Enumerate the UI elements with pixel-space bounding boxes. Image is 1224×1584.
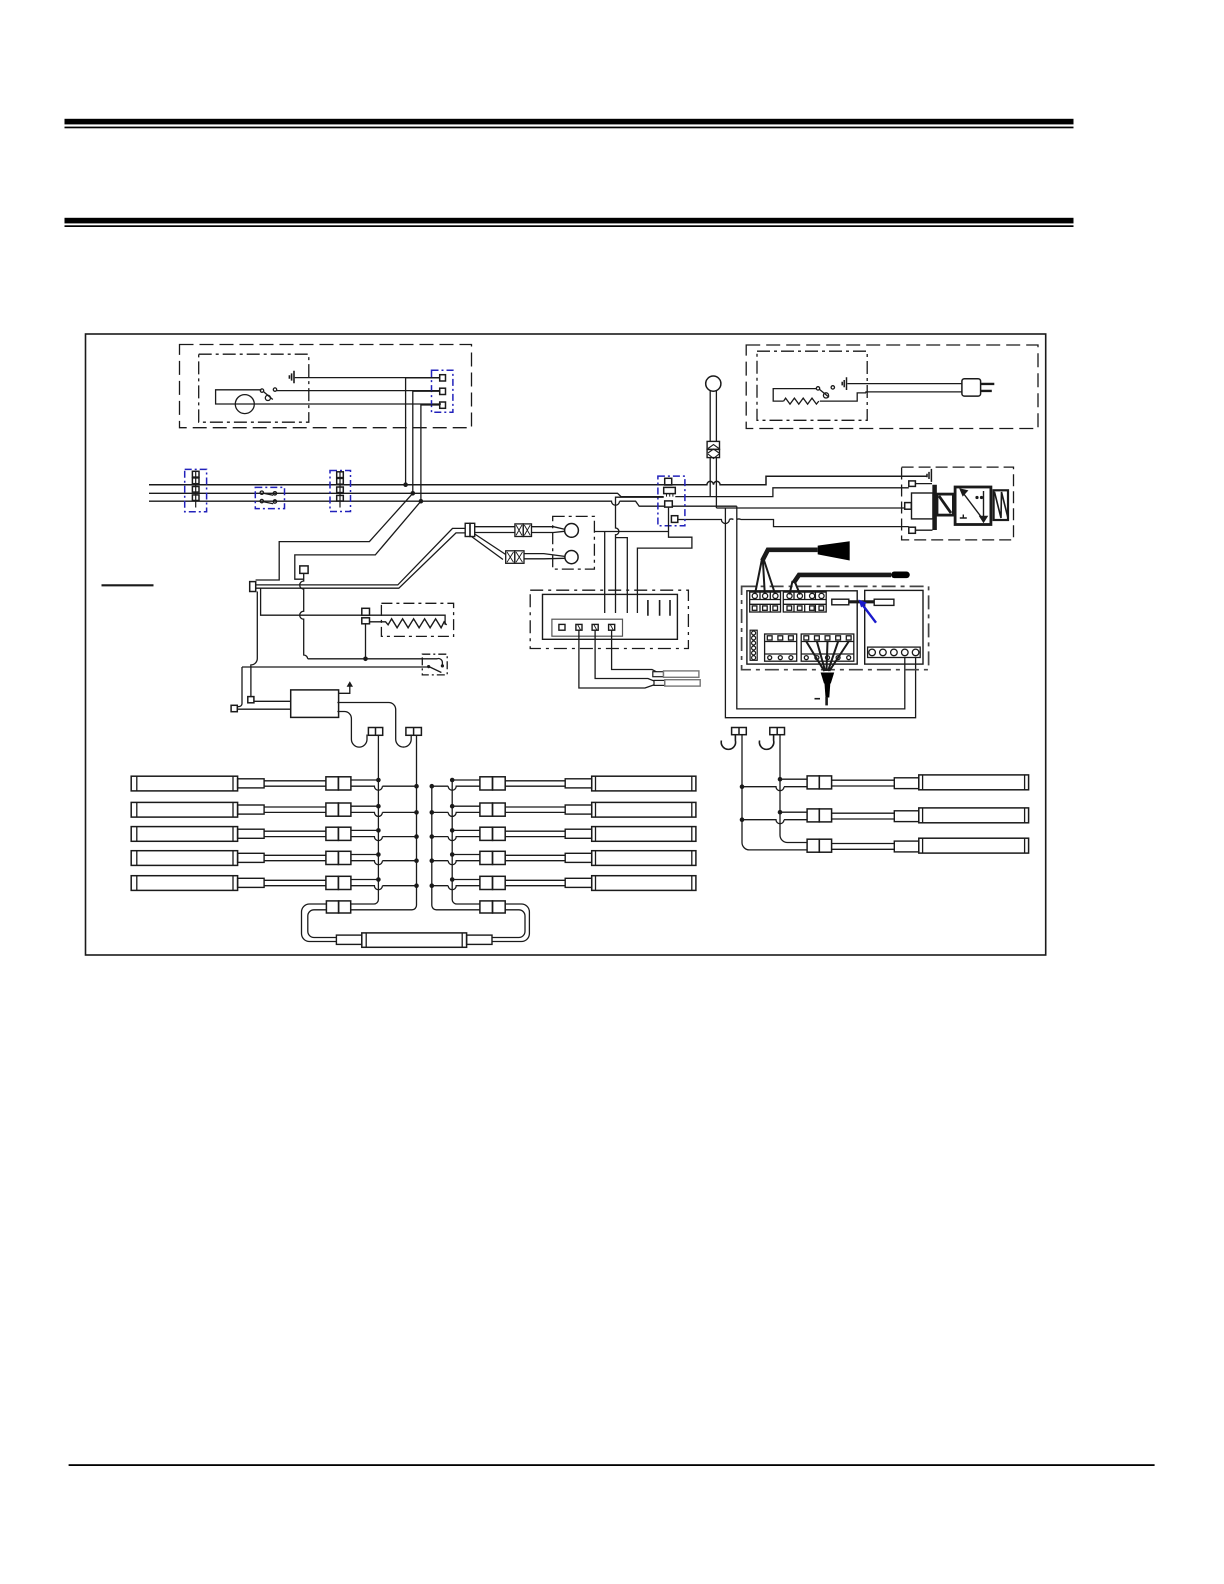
solenoid return spring [994,490,1008,520]
solenoid valve dashed box [902,467,1014,540]
muffler out wire A (to lug B) [337,703,411,748]
heater element mid row 5 [430,876,696,891]
right bank lug 1 hook [721,735,735,750]
control unit inner box [543,594,678,639]
wire W3 to switch [242,666,427,668]
wire T1 upper to splitter diagonal [256,528,466,585]
bottom heater bar [362,933,467,947]
bottom rule [69,1464,1155,1466]
lighting switch dash-dot box [422,654,447,675]
resistor terminal square B [362,618,370,624]
terminal strip A [750,592,781,612]
right trunk 2 [780,735,807,843]
square B stem to junction [365,624,367,659]
accessory wire from P4 to solenoid pin3 [678,519,909,527]
main harness bus wire 2 [149,493,664,496]
right bank lug 1 [732,728,747,735]
top double rule 1 [65,119,1074,129]
crimp terminal 2 ferrule [654,680,665,685]
minus mark [815,698,821,700]
heater element resistor loop [773,389,866,402]
comb terminal strokes [648,600,670,616]
heater element left row 5 [131,876,419,891]
spark plug cap [821,673,835,684]
T1-to-muffler drop wire [251,592,257,697]
control unit terminal strip [552,619,623,636]
wire X2 to lamp2 [524,554,565,559]
resistor terminal square A [362,608,370,615]
main harness bus wire 2 extension to solenoid [675,488,909,497]
bottom left loop inner [308,910,337,938]
T2 stem down with hops [300,573,308,658]
heater element right row 2 [807,808,1029,823]
valve internal arrow [960,489,987,522]
charge wire V1 [725,508,915,718]
muffler terminal square 1 [248,697,254,703]
muffler vent arrow [339,686,350,693]
right trunk 1 [742,735,807,850]
probe fan wires [790,581,801,595]
wire ground to pin1 [295,377,440,379]
lighting switch contacts [427,664,444,672]
magneto rotor circle [235,395,254,414]
wire pin1 down to bus [406,378,440,485]
CDI feed wire C2 [616,497,664,613]
power plug body [962,379,981,396]
6P connector strip [750,630,757,660]
engine unit outer dashed box [180,345,472,428]
muffler unit body [291,690,339,718]
fuse holder right [874,599,894,605]
crimp terminal 1 blade [664,671,699,677]
relay block C [765,634,797,661]
brush fan wires [755,559,775,594]
engine magneto inner dash-dot box [199,354,309,422]
center connector pin P2 [664,487,676,493]
CDI feed wire C3 [616,538,628,613]
heater element mid row 4 [430,851,696,866]
connector pin 1 [440,375,446,381]
shift lever stem [710,391,716,442]
connector pin 2 [440,388,446,394]
resistor element zigzag [370,619,447,628]
ignition stop switch [260,388,276,401]
terminal strip B [783,592,826,612]
right bank lug 2 hook [759,735,773,750]
wire X1 to lamp1 [532,527,565,533]
heater element right row 1 [807,775,1029,790]
top double rule 2 [65,218,1074,227]
main harness bus wire 3 extension [672,505,737,507]
harness fan to plug [806,642,848,672]
right row2 feed wires [742,812,807,824]
solenoid pin square 2 [905,503,912,510]
center connector pin P4 [671,516,677,523]
main diagram border [86,334,1046,955]
bottom heater sleeve right [467,935,492,944]
legend tick line left [102,584,154,586]
terminal T2 [300,566,308,574]
heater element right row 3 [807,838,1029,853]
terminal T1 [250,582,256,592]
center connector pin P2 tail [667,494,673,497]
trunk wire D [452,780,480,904]
CDI feed wire C1 [594,532,668,614]
crimp terminal 2 blade [665,680,700,686]
main harness bus wire 3 [149,501,665,506]
connector 4P (center) blue box [658,476,685,526]
right bank lug 2 [770,728,785,735]
bottom heater sleeve left [336,935,361,944]
probe tip [891,572,910,579]
heater element left row 4 [131,851,419,866]
solenoid connector body [912,493,934,519]
battery probe lead [794,575,892,583]
charge wire V2 [737,506,905,709]
main harness bus wire 1 [149,476,927,485]
solenoid pin square 1 [909,481,916,487]
handlebar switch (blue box on bus) [255,487,284,508]
heater element left row 2 [131,802,419,817]
lamp bulb 1 [565,524,579,538]
lamp bulb 2 [565,551,578,564]
bullet connector joint 2 (blue box on bus) [330,471,351,512]
battery box outer dash-dot [742,586,929,669]
crimp terminal 1 ferrule [653,672,664,677]
shift lever ball [706,376,721,391]
muffler terminal2 wire [238,708,291,710]
solenoid coil flange bar [932,485,937,530]
power cord wires [847,384,962,393]
pin hatch marks [578,624,614,630]
muffler out wire B (to lug A) [337,712,367,748]
trunk wire C [432,786,480,910]
wire switch to pin2 [277,390,440,392]
junction dot resistor drop [363,657,368,662]
block heater inner dash-dot box [757,351,867,420]
bottom left loop outer [302,904,337,942]
wire T1 lower to splitter diagonal [256,533,466,588]
heater element mid row 1 [430,776,696,791]
bottom right loop outer [492,904,529,942]
CDI output wire 3 [579,630,658,688]
wire pair bus to left drop (lower) [295,501,421,579]
CDI output wire 2 [595,630,659,683]
X connector 1 [515,524,532,537]
wire W4 horizontal to switch [308,659,443,666]
fuse holder left [832,599,849,605]
heater resistor zigzag [784,398,819,404]
wire W2 over resistor [261,588,446,625]
bus junction dots [403,482,423,503]
battery cable brush lead [762,550,817,561]
resistor unit dash-dot box [381,603,453,636]
heater element left row 3 [131,827,419,842]
X connector 2 [506,551,524,564]
brush funnel [818,541,850,560]
heater switch [816,386,834,398]
lamp pair upper [475,527,515,533]
lever stem lower [710,458,716,508]
solenoid wires to coil [915,484,932,531]
lug B (left bank) [406,728,422,736]
muffler terminal square 2 [231,705,237,711]
relay block D [801,634,854,661]
heater element left row 1 [131,776,419,791]
trunk wire B [351,735,417,910]
right row1 feed wires [742,779,807,791]
connector 3P (engine) blue box [432,370,453,412]
fuse element [849,600,874,603]
magneto frame [216,390,441,404]
battery inner box left [747,591,857,664]
solenoid valve body [955,487,991,525]
solenoid feed wire (lever to valve pin2) [716,507,904,509]
control unit outer dash-dot box [530,590,688,648]
center connector pin P3 [665,501,673,507]
fuse pointer blue arrow [859,600,877,623]
bottom right loop inner [492,910,525,938]
lamps dash-dot box [553,516,595,569]
splitter inline connector [465,523,475,536]
bullet connector joint 1 (blue box on bus) [185,469,207,511]
regulator inner box right [865,590,923,664]
wire pin3 down to bus [421,405,440,501]
trunk wire A [351,735,379,904]
solenoid pin square 3 [909,527,916,533]
lamp pair lower diagonal [472,534,506,560]
heater element mid row 2 [430,802,696,817]
strip pin square 4 [609,624,615,630]
regulator terminal row [868,647,921,657]
strip pin square 1 [559,624,565,630]
block heater outer dashed box [746,345,1038,429]
bottom connector 6 [326,901,350,913]
solenoid ground symbol [927,469,931,482]
wire pair bus to left drop (upper) [256,493,413,580]
spring zigzag [995,492,1009,518]
heater element mid row 3 [430,827,696,842]
CDI feed wire C4 [637,507,692,613]
plug prongs [981,384,995,391]
W3 corner drop [238,667,242,707]
connector pin 3 [440,402,446,408]
muffler terminal1 wire [254,700,291,702]
solenoid coil body [937,494,953,515]
lug A (left bank) [368,728,382,736]
center connector pin P1 [665,478,672,485]
lever inline connector [707,441,719,458]
engine ground symbol [289,371,294,383]
wire pin2 down to bus [413,391,440,493]
bottom connector 7 [480,901,505,913]
strip pin square 2 [576,624,582,630]
cord ground symbol [842,377,846,390]
strip pin square 3 [592,624,598,630]
CDI output wire 1 [612,630,661,674]
